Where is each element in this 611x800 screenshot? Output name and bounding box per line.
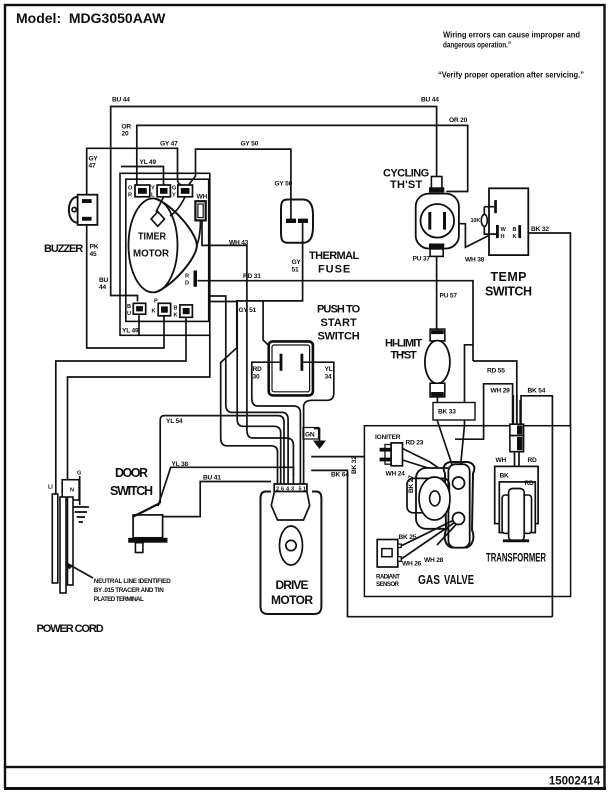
wire YL49 <box>121 167 164 186</box>
svg-text:TH'ST: TH'ST <box>391 350 417 362</box>
label GN <box>303 428 319 440</box>
wire YL54 <box>160 296 288 503</box>
label TIMER MOTOR <box>133 231 169 260</box>
motor pin numbers <box>276 487 306 493</box>
svg-text:SWITCH: SWITCH <box>485 285 532 299</box>
svg-text:RD 55: RD 55 <box>487 368 505 375</box>
svg-text:1: 1 <box>303 487 306 493</box>
svg-text:P: P <box>154 299 158 305</box>
svg-text:K: K <box>513 234 517 240</box>
label DOOR SWITCH <box>110 466 153 498</box>
svg-text:TIMER: TIMER <box>138 231 166 243</box>
label R/D stacked <box>185 274 189 287</box>
neutral note arrow <box>68 564 93 578</box>
wire N feed <box>68 335 210 479</box>
cycling thermostat <box>416 177 459 257</box>
timer motor ellipse <box>129 197 201 292</box>
wire RD31 <box>198 281 474 361</box>
wire PU57 <box>436 256 438 329</box>
svg-text:6: 6 <box>281 487 284 493</box>
svg-text:N: N <box>70 488 74 494</box>
drive motor body <box>261 492 322 615</box>
svg-text:GY 50: GY 50 <box>275 181 293 188</box>
svg-text:2: 2 <box>276 487 279 493</box>
wire GY51 from fuse <box>221 243 303 476</box>
hi-limit thermostat <box>425 329 450 397</box>
label B/U stacked <box>127 304 131 317</box>
svg-text:BY .015 TRACER AND TIN: BY .015 TRACER AND TIN <box>94 587 164 594</box>
svg-text:GY: GY <box>292 259 302 266</box>
ground GN arrow <box>314 429 320 441</box>
wire RD55 to transformer <box>473 361 517 424</box>
buzzer <box>69 195 97 225</box>
wire WH43 <box>202 220 293 476</box>
svg-text:Model: MDG3050AAW: Model: MDG3050AAW <box>16 10 166 26</box>
svg-text:BU 44: BU 44 <box>112 97 130 104</box>
wire GY51 branch to push-start <box>263 301 280 356</box>
svg-text:GY 51: GY 51 <box>239 307 257 314</box>
temp switch W/H terminal <box>496 225 499 238</box>
svg-text:DOOR: DOOR <box>115 466 148 480</box>
svg-text:WH 26: WH 26 <box>402 561 422 568</box>
timer WH relay <box>195 201 205 220</box>
svg-text:MOTOR: MOTOR <box>133 248 169 260</box>
timer terminal P/K <box>158 303 170 316</box>
svg-text:BK 27: BK 27 <box>408 475 415 493</box>
svg-text:HI-LIMIT: HI-LIMIT <box>385 338 422 350</box>
svg-text:H: H <box>501 234 505 240</box>
wire BK32 temp switch down right side <box>521 233 571 426</box>
temp switch left terminal <box>489 200 497 213</box>
svg-text:47: 47 <box>89 163 96 170</box>
door switch <box>128 503 167 553</box>
svg-text:RD 23: RD 23 <box>406 440 424 447</box>
svg-text:BK 33: BK 33 <box>438 409 456 416</box>
svg-text:YL 54: YL 54 <box>166 418 183 425</box>
svg-text:44: 44 <box>99 284 106 291</box>
wire GY50 timer to thermal fuse <box>189 149 291 199</box>
motor connector plug <box>271 476 309 520</box>
wire BK33 <box>437 397 455 475</box>
label G/Y stacked <box>172 186 176 199</box>
svg-text:dangerous operation.”: dangerous operation.” <box>443 41 511 50</box>
wire WH26 <box>401 523 454 560</box>
svg-text:BK: BK <box>500 473 510 480</box>
svg-text:DRIVE: DRIVE <box>276 578 309 592</box>
svg-text:BUZZER: BUZZER <box>44 243 83 255</box>
gas valve enclosure box <box>364 426 570 597</box>
svg-text:R: R <box>185 274 189 280</box>
wire RD30 <box>252 362 301 476</box>
gas valve body <box>407 462 474 548</box>
svg-text:5: 5 <box>298 487 301 493</box>
label PUSH TO START SWITCH <box>317 304 361 343</box>
svg-text:TEMP: TEMP <box>491 270 527 284</box>
svg-text:VALVE: VALVE <box>444 573 474 587</box>
svg-text:RD: RD <box>253 366 263 373</box>
temp switch box <box>489 188 528 255</box>
svg-text:RD 31: RD 31 <box>243 273 261 280</box>
svg-text:SENSOR: SENSOR <box>376 581 400 588</box>
igniter <box>380 443 403 466</box>
svg-text:GY: GY <box>89 156 99 163</box>
svg-text:15002414: 15002414 <box>549 776 601 788</box>
push to start switch <box>269 341 313 395</box>
wire WH28 <box>437 524 457 545</box>
svg-text:G: G <box>172 186 176 192</box>
svg-text:K: K <box>152 309 156 315</box>
label THERMAL FUSE <box>309 250 359 276</box>
svg-text:BU 44: BU 44 <box>421 97 439 104</box>
svg-text:RD: RD <box>528 457 538 464</box>
wire BU41 <box>163 482 271 517</box>
svg-text:PK: PK <box>90 244 99 251</box>
label CYCLING TH'ST <box>383 168 429 192</box>
label B/K stacked <box>513 227 517 240</box>
svg-text:B: B <box>513 227 517 233</box>
svg-text:TH'ST: TH'ST <box>390 179 422 191</box>
svg-text:RD: RD <box>525 480 535 487</box>
svg-text:3: 3 <box>291 487 294 493</box>
svg-text:10K: 10K <box>471 218 481 224</box>
svg-text:RADIANT: RADIANT <box>376 574 400 581</box>
label DRIVE MOTOR <box>271 578 313 607</box>
svg-text:BK 54: BK 54 <box>528 388 546 395</box>
svg-text:YL 49: YL 49 <box>140 159 157 166</box>
svg-text:PUSH TO: PUSH TO <box>317 304 361 316</box>
wire B/U drop <box>138 313 140 335</box>
label GY 51 stacked <box>292 259 302 274</box>
svg-text:U: U <box>127 311 131 317</box>
svg-text:WH: WH <box>496 457 507 464</box>
label RADIANT SENSOR <box>376 574 400 589</box>
wire OR20 <box>137 125 468 191</box>
svg-text:45: 45 <box>90 251 97 258</box>
svg-text:G: G <box>77 471 81 477</box>
timer terminal G/Y <box>178 185 193 197</box>
label Y/L stacked <box>151 186 155 199</box>
svg-text:PLATED TERMINAL: PLATED TERMINAL <box>94 596 144 603</box>
svg-text:THERMAL: THERMAL <box>309 250 359 262</box>
svg-text:PU 37: PU 37 <box>413 256 431 263</box>
wire RD to gas valve <box>460 345 474 477</box>
svg-text:WH 38: WH 38 <box>465 257 485 264</box>
wire WH38 <box>454 224 497 248</box>
label HI-LIMIT TH'ST <box>385 338 422 362</box>
timer enclosure box <box>120 173 210 335</box>
svg-text:LI: LI <box>48 485 53 491</box>
svg-text:MOTOR: MOTOR <box>271 593 313 607</box>
radiant sensor <box>377 540 401 568</box>
svg-text:WH 28: WH 28 <box>424 557 444 564</box>
label P/K stacked <box>152 299 159 315</box>
svg-text:BU: BU <box>99 277 109 284</box>
svg-text:YL 38: YL 38 <box>172 461 189 468</box>
label BK 27 rotated <box>408 475 415 493</box>
svg-text:YL: YL <box>325 366 333 373</box>
resistor 10K <box>481 207 497 234</box>
svg-text:CYCLING: CYCLING <box>383 168 429 180</box>
label BK 33 box <box>433 403 475 421</box>
svg-text:D: D <box>185 281 189 287</box>
label OR 20 stacked left <box>122 124 132 138</box>
timer terminal R/D <box>194 271 198 287</box>
wire LI feed <box>56 317 186 494</box>
svg-text:GY 47: GY 47 <box>160 141 178 148</box>
wire BK64 motor loop <box>311 470 552 616</box>
label YL 34 stacked <box>325 366 333 381</box>
svg-text:34: 34 <box>325 374 332 381</box>
label BK 32 rotated <box>351 456 358 474</box>
svg-text:GAS: GAS <box>418 573 440 587</box>
svg-text:BK 64: BK 64 <box>331 472 349 479</box>
timer terminal Y/L <box>157 185 170 197</box>
svg-text:START: START <box>321 317 357 329</box>
svg-text:NEUTRAL LINE IDENTIFIED: NEUTRAL LINE IDENTIFIED <box>94 578 171 585</box>
svg-text:YL 49: YL 49 <box>122 328 139 335</box>
svg-text:IGNITER: IGNITER <box>375 434 401 441</box>
svg-text:POWER CORD: POWER CORD <box>37 623 104 635</box>
power cord <box>52 476 89 593</box>
label PK 45 stacked <box>90 244 99 259</box>
svg-text:WH 43: WH 43 <box>229 240 249 247</box>
wire WH29 <box>455 384 513 439</box>
transformer connector blocks <box>510 395 524 482</box>
timer terminal O/R <box>135 185 150 197</box>
svg-text:WH 29: WH 29 <box>491 388 511 395</box>
svg-text:WH: WH <box>197 194 208 201</box>
wire GY47 buzzer to timer <box>87 148 182 194</box>
svg-text:FUSE: FUSE <box>318 264 350 276</box>
label BU 44 stacked at timer <box>99 277 109 291</box>
svg-text:OR 20: OR 20 <box>449 117 468 124</box>
svg-text:B: B <box>174 306 178 312</box>
wire BK25 <box>401 521 453 546</box>
timer cam diamond <box>151 212 164 227</box>
svg-text:51: 51 <box>292 267 299 274</box>
transformer <box>495 466 538 540</box>
svg-text:BU 41: BU 41 <box>203 475 221 482</box>
svg-text:PU 57: PU 57 <box>440 293 458 300</box>
label GY 47 stacked <box>89 156 99 170</box>
neutral note text <box>94 578 171 603</box>
svg-text:“Verify proper operation after: “Verify proper operation after servicing… <box>438 71 584 80</box>
svg-text:BK 25: BK 25 <box>399 534 417 541</box>
svg-text:K: K <box>174 313 178 319</box>
svg-text:30: 30 <box>253 374 260 381</box>
svg-text:GY 50: GY 50 <box>241 141 259 148</box>
svg-text:R: R <box>128 193 132 199</box>
svg-text:Y: Y <box>172 193 176 199</box>
wire BU44 top run <box>111 107 437 302</box>
wire BK32 motor to box <box>311 456 364 458</box>
timer terminal B/U <box>133 303 145 314</box>
svg-text:B: B <box>127 304 131 310</box>
wire YL34 <box>302 362 334 476</box>
wire RD23 <box>403 449 455 480</box>
label O/R stacked <box>128 186 133 199</box>
temp switch B/K terminal <box>518 225 521 238</box>
label RD 30 stacked <box>253 366 263 381</box>
wire to motor pin6 <box>209 302 281 477</box>
label B/K stacked <box>174 306 178 319</box>
wire YL38 <box>158 467 293 506</box>
svg-text:BK 32: BK 32 <box>531 226 549 233</box>
label W/H stacked <box>501 227 507 240</box>
wire BK54 <box>521 396 552 617</box>
label TEMP SWITCH <box>485 270 532 299</box>
svg-text:20: 20 <box>122 131 129 138</box>
svg-text:SWITCH: SWITCH <box>318 331 360 343</box>
timer terminal B/K <box>180 305 193 317</box>
wire PK45 buzzer loop <box>87 225 164 348</box>
wire WH24 <box>403 460 453 483</box>
svg-text:SWITCH: SWITCH <box>110 484 153 498</box>
svg-text:TRANSFORMER: TRANSFORMER <box>486 551 546 565</box>
svg-text:Y: Y <box>151 186 155 192</box>
warning note <box>438 31 584 80</box>
thermal fuse body <box>281 200 313 243</box>
svg-text:BK 32: BK 32 <box>351 456 358 474</box>
svg-text:GN: GN <box>305 432 315 439</box>
svg-text:OR: OR <box>122 124 132 131</box>
svg-text:WH 24: WH 24 <box>386 471 406 478</box>
svg-text:Wiring errors can cause improp: Wiring errors can cause improper and <box>443 31 580 40</box>
